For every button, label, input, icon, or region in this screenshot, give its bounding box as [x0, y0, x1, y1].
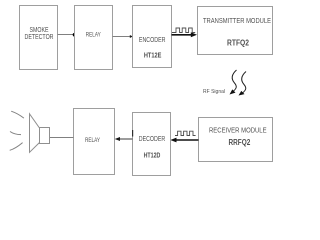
sound waves	[10, 111, 24, 150]
smoke detector block	[20, 6, 58, 70]
relay block (top)	[75, 6, 113, 70]
svg-text:ENCODER: ENCODER	[139, 37, 166, 44]
junction dot at relay input	[73, 33, 77, 37]
speaker / alarm sounder	[30, 114, 50, 153]
svg-text:RRFQ2: RRFQ2	[229, 138, 251, 147]
wire smoke detector to relay	[58, 34, 75, 36]
receiver module block RRFQ2	[199, 118, 273, 162]
svg-text:DECODER: DECODER	[139, 136, 166, 143]
arrowhead at encoder input	[130, 35, 133, 38]
transmitter module block RTFQ2	[198, 7, 273, 55]
svg-text:RELAY: RELAY	[85, 137, 100, 144]
svg-text:DETECTOR: DETECTOR	[25, 34, 54, 41]
svg-text:SMOKE: SMOKE	[30, 27, 49, 34]
RF wave arrow 2	[239, 72, 247, 96]
svg-text:RTFQ2: RTFQ2	[227, 39, 249, 48]
relay block (bottom)	[74, 109, 115, 175]
svg-text:HT12E: HT12E	[144, 52, 162, 59]
svg-text:RELAY: RELAY	[86, 32, 101, 39]
arrow decoder to relay	[115, 137, 133, 141]
wire relay to speaker	[50, 137, 74, 139]
svg-text:TRANSMITTER MODULE: TRANSMITTER MODULE	[203, 18, 271, 25]
wire relay to encoder	[113, 36, 132, 38]
svg-text:HT12D: HT12D	[144, 153, 161, 160]
svg-text:RF Signal: RF Signal	[203, 89, 225, 95]
svg-text:RECEIVER MODULE: RECEIVER MODULE	[209, 128, 267, 135]
encoder block HT12E	[133, 6, 172, 68]
decoder block HT12D	[133, 113, 171, 176]
RF wave arrow 1	[230, 70, 237, 95]
data waveform at encoder output	[172, 28, 195, 33]
dark tick on decoder input edge	[132, 130, 134, 137]
arrow receiver to decoder	[170, 138, 198, 143]
arrow encoder to transmitter	[172, 32, 198, 37]
data waveform at receiver output	[175, 131, 196, 135]
